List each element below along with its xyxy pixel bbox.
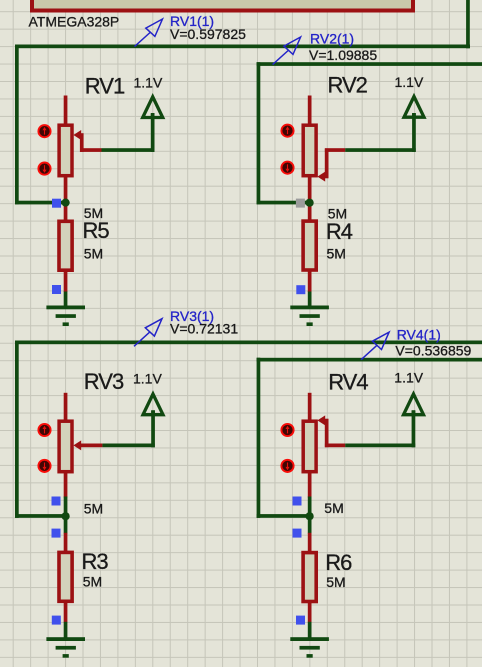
potentiometer RV2 body	[303, 125, 316, 176]
wire net RV1(1) top horizontal	[15, 45, 470, 49]
potentiometer RV3 body	[59, 421, 72, 472]
svg-text:RV4: RV4	[328, 370, 368, 395]
potentiometer RV1 wiper arrow	[73, 130, 81, 140]
potentiometer RV4 body	[303, 421, 316, 472]
svg-text:R3: R3	[82, 549, 109, 574]
origin marker square RV2 junction	[296, 199, 305, 208]
power lead RV2	[412, 113, 416, 152]
wire junction dot RV3/R3	[62, 512, 70, 520]
resistor R4 body	[303, 221, 316, 270]
voltage probe arrow RV2(1)	[273, 37, 301, 65]
resistor R5 bottom pin stub	[64, 271, 68, 292]
pot adjust button (down) RV3	[38, 460, 50, 472]
pot adjust button (down) RV1	[38, 163, 50, 175]
svg-text:ATMEGA328P: ATMEGA328P	[29, 14, 120, 30]
pot adjust button (down) RV4	[281, 460, 293, 472]
resistor R5 body	[59, 221, 72, 270]
ground symbol GND R4	[290, 306, 329, 327]
wire R4 to ground	[308, 292, 312, 308]
svg-text:V=0.536859: V=0.536859	[395, 342, 471, 358]
wire RV3 wiper to power	[102, 444, 154, 448]
wire net RV2(1) left vertical	[257, 62, 261, 204]
svg-text:5M: 5M	[84, 245, 103, 261]
svg-text:RV2(1): RV2(1)	[310, 31, 354, 47]
potentiometer RV1 bottom pin wire	[64, 176, 68, 221]
potentiometer RV1 top pin stub	[64, 96, 68, 126]
resistor R6 body	[303, 553, 316, 602]
svg-text:RV3: RV3	[84, 369, 124, 394]
origin marker square R5 ground wire	[52, 285, 61, 294]
svg-text:5M: 5M	[324, 500, 343, 516]
wire RV4 bottom to junction	[308, 497, 312, 534]
resistor R3 top pin stub	[64, 533, 68, 552]
ground symbol GND R5	[46, 306, 85, 327]
wire net RV2(1) bottom horizontal to junction	[257, 201, 307, 205]
svg-text:5M: 5M	[84, 500, 103, 516]
wire net RV3(1) bottom horizontal to junction	[15, 514, 64, 518]
wire RV2 wiper to power	[345, 148, 416, 152]
origin marker square R3 ground wire	[52, 616, 61, 625]
wire net RV4(1) left vertical	[257, 358, 261, 518]
wire net RV1(1) right vertical to chip	[466, 0, 470, 48]
power symbol +1.1V RV4	[404, 394, 424, 415]
potentiometer RV3 wiper stub	[80, 444, 102, 448]
svg-text:R4: R4	[326, 219, 353, 244]
svg-text:V=1.09885: V=1.09885	[309, 47, 377, 63]
potentiometer RV3 wiper arrow	[73, 440, 81, 450]
power symbol +1.1V RV2	[404, 97, 424, 118]
wire junction dot RV2/R4	[306, 199, 314, 207]
wire junction dot RV4/R6	[306, 512, 314, 520]
potentiometer RV4 bottom pin stub	[308, 472, 312, 497]
svg-text:5M: 5M	[326, 574, 345, 590]
svg-text:RV4(1): RV4(1)	[397, 327, 441, 343]
wire net RV1(1) left vertical	[15, 45, 19, 205]
voltage probe arrow RV3(1)	[134, 319, 162, 347]
wire net RV2(1) top horizontal	[257, 62, 482, 66]
resistor R3 body	[59, 552, 72, 601]
resistor R4 bottom pin stub	[308, 271, 312, 292]
power lead RV4	[412, 410, 416, 447]
wire R3 to ground	[64, 622, 68, 639]
wire net RV4(1) bottom horizontal to junction	[257, 514, 306, 518]
svg-text:V=0.597825: V=0.597825	[170, 26, 246, 42]
wire RV4 wiper to power	[345, 444, 415, 448]
voltage probe arrow RV4(1)	[361, 332, 389, 360]
pot adjust button (up) RV3	[38, 424, 50, 436]
potentiometer RV1 wiper wire jog	[80, 133, 102, 152]
ground symbol GND R6	[290, 637, 329, 657]
potentiometer RV3 top pin stub	[64, 393, 68, 421]
svg-text:RV1: RV1	[85, 73, 125, 98]
potentiometer RV2 wiper wire jog	[325, 148, 345, 178]
origin marker square R4 ground wire	[296, 285, 305, 294]
potentiometer RV3 bottom pin stub	[64, 472, 68, 497]
wire net RV4(1) top horizontal	[257, 358, 482, 362]
svg-text:5M: 5M	[83, 574, 102, 590]
svg-text:5M: 5M	[327, 245, 346, 261]
origin marker square RV3 bottom pin	[52, 497, 61, 506]
pot adjust button (up) RV2	[281, 125, 293, 137]
svg-text:R6: R6	[325, 550, 352, 575]
origin marker square R3 top pin	[52, 529, 61, 538]
pot adjust button (down) RV2	[281, 162, 293, 174]
svg-text:V=0.72131: V=0.72131	[170, 320, 238, 336]
potentiometer RV2 top pin stub	[308, 96, 312, 126]
voltage probe arrow RV1(1)	[135, 19, 163, 47]
power lead RV3	[151, 410, 155, 447]
origin marker square R6 ground wire	[296, 616, 305, 625]
wire junction dot RV1/R5	[62, 199, 70, 207]
power lead RV1	[151, 113, 155, 152]
wire R5 to ground	[64, 292, 68, 308]
svg-text:RV2: RV2	[328, 73, 368, 98]
potentiometer RV4 top pin stub	[308, 393, 312, 421]
potentiometer RV2 wiper arrow	[317, 172, 325, 182]
origin marker square RV1 junction	[52, 199, 61, 208]
resistor R6 bottom pin stub	[308, 603, 312, 623]
svg-text:1.1V: 1.1V	[394, 370, 423, 386]
svg-text:1.1V: 1.1V	[395, 74, 424, 90]
svg-text:1.1V: 1.1V	[133, 370, 162, 386]
power symbol +1.1V RV3	[143, 394, 163, 415]
wire net RV3(1) top horizontal	[15, 341, 482, 345]
wire net RV3(1) left vertical	[15, 341, 19, 518]
resistor R6 top pin stub	[308, 533, 312, 552]
ground symbol GND R3	[46, 637, 85, 657]
wire RV3 bottom to junction	[64, 497, 68, 534]
potentiometer RV4 wiper arrow	[317, 415, 325, 425]
wire RV1 wiper to power	[102, 148, 155, 152]
potentiometer RV1 body	[59, 125, 72, 176]
pot adjust button (up) RV4	[281, 424, 293, 436]
origin marker square RV4 bottom pin	[293, 497, 302, 506]
wire R6 to ground	[308, 622, 312, 639]
svg-text:1.1V: 1.1V	[134, 75, 163, 91]
power symbol +1.1V RV1	[143, 97, 163, 118]
pot adjust button (up) RV1	[38, 125, 50, 137]
potentiometer RV2 bottom pin wire	[308, 176, 312, 221]
wire net RV1(1) bottom horizontal to junction	[15, 201, 63, 205]
IC U1 ATMEGA328P body (bottom edge, cropped)	[32, 0, 413, 11]
origin marker square R6 top pin	[293, 529, 302, 538]
potentiometer RV4 wiper wire jog	[325, 419, 345, 448]
svg-text:R5: R5	[83, 218, 110, 243]
resistor R3 bottom pin stub	[64, 602, 68, 622]
